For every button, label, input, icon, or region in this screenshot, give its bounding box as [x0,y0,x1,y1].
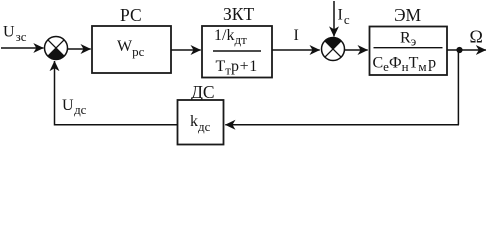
summing junction S1 circle [45,37,68,60]
svg-text:ДС: ДС [191,82,215,102]
block RS box [92,26,171,73]
summing junction S1 filled bottom sector [48,48,65,60]
svg-text:ЭМ: ЭМ [394,5,422,25]
wire input Uzs arrow into summer 1 [1,47,44,49]
wire RS to ZKT arrow [171,49,201,51]
svg-text:Ттр+1: Ттр+1 [216,58,258,78]
summing junction S2 cross [325,41,342,58]
block EM fraction bar [374,47,443,49]
block EM box [370,27,448,76]
wire ZKT to summer2 arrow, node I [272,49,320,51]
summing junction S2 filled top sector [325,37,342,49]
svg-text:Ω: Ω [470,27,483,47]
block ZKT box [202,26,272,78]
summing junction S2 circle [322,38,345,61]
wire feedback bottom rail into DS arrow [225,124,459,126]
wire DS to left rail [55,124,178,126]
wire summer1 to RS block arrow [68,48,91,50]
wire feedback down from output dot [457,50,459,125]
node output junction dot [456,47,462,53]
block ZKT fraction bar [213,50,261,52]
svg-text:ЗКТ: ЗКТ [223,4,254,24]
wire EM to output arrow [447,49,486,51]
wire feedback up into summer1 arrow [54,61,56,126]
svg-text:РС: РС [120,5,142,25]
svg-text:I: I [294,27,299,44]
wire Ic input arrow down into summer 2 [333,1,335,37]
block DS box [178,100,224,145]
summing junction S1 cross [48,40,65,57]
wire summer2 to EM arrow [345,49,368,51]
